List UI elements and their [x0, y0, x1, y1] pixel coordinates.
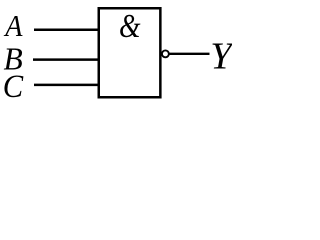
svg-text:C: C: [3, 69, 24, 105]
inversion bubble: [162, 50, 169, 57]
wire input A: [34, 28, 99, 31]
wire input B: [33, 58, 99, 61]
svg-text:A: A: [3, 10, 23, 43]
svg-text:&: &: [119, 8, 141, 45]
svg-text:Y: Y: [210, 36, 232, 78]
wire output Y: [169, 53, 209, 55]
wire input C: [34, 84, 99, 87]
gate U1 (3-input NAND, IEC rectangle): [99, 8, 161, 97]
